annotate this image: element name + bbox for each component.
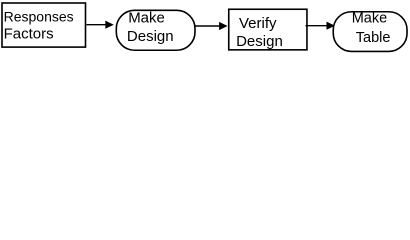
wire arrow 2 xyxy=(196,25,221,27)
svg-text:Table: Table xyxy=(356,30,391,46)
terminator "Make Table" xyxy=(333,12,407,52)
svg-text:Design: Design xyxy=(236,33,283,50)
process box "Verify Design" xyxy=(229,9,307,50)
terminator "Make Design" xyxy=(116,10,195,50)
svg-text:Make: Make xyxy=(352,11,387,27)
wire arrow 1 xyxy=(87,24,107,26)
process box "Responses Factors" xyxy=(2,3,86,47)
svg-text:Responses: Responses xyxy=(4,8,74,24)
wire arrow 3 xyxy=(306,25,329,27)
svg-text:Make: Make xyxy=(128,9,165,26)
svg-text:Design: Design xyxy=(127,28,174,45)
svg-text:Verify: Verify xyxy=(239,15,277,32)
svg-text:Factors: Factors xyxy=(4,25,54,42)
